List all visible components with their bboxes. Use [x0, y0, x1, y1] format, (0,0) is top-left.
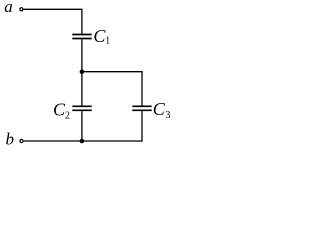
wire C2 to bottom node [81, 111, 83, 141]
label C1 [93, 26, 110, 46]
svg-text:b: b [6, 130, 15, 149]
label C2 [53, 100, 70, 122]
wire C3 to bottom [141, 111, 143, 142]
capacitor C2 [72, 106, 91, 110]
junction node top [80, 69, 85, 74]
terminal a [20, 8, 23, 11]
wire middle horizontal node to right branch [82, 71, 143, 73]
svg-text:a: a [4, 0, 13, 16]
wire bottom horizontal [24, 140, 143, 142]
wire vertical a-corner to C1 [81, 9, 83, 34]
wire right vertical to C3 [141, 71, 143, 106]
capacitor C3 [132, 106, 151, 110]
svg-text:C: C [153, 99, 166, 119]
terminal b [20, 139, 23, 142]
wire left vertical node to C2 [81, 72, 83, 106]
svg-text:3: 3 [165, 110, 170, 121]
wire C1 to node [81, 39, 83, 71]
label C3 [153, 99, 171, 121]
svg-text:1: 1 [105, 36, 110, 47]
svg-text:2: 2 [65, 110, 70, 121]
capacitor C1 [72, 35, 91, 39]
wire top horizontal a to corner [24, 8, 82, 10]
junction node bottom [80, 139, 85, 144]
